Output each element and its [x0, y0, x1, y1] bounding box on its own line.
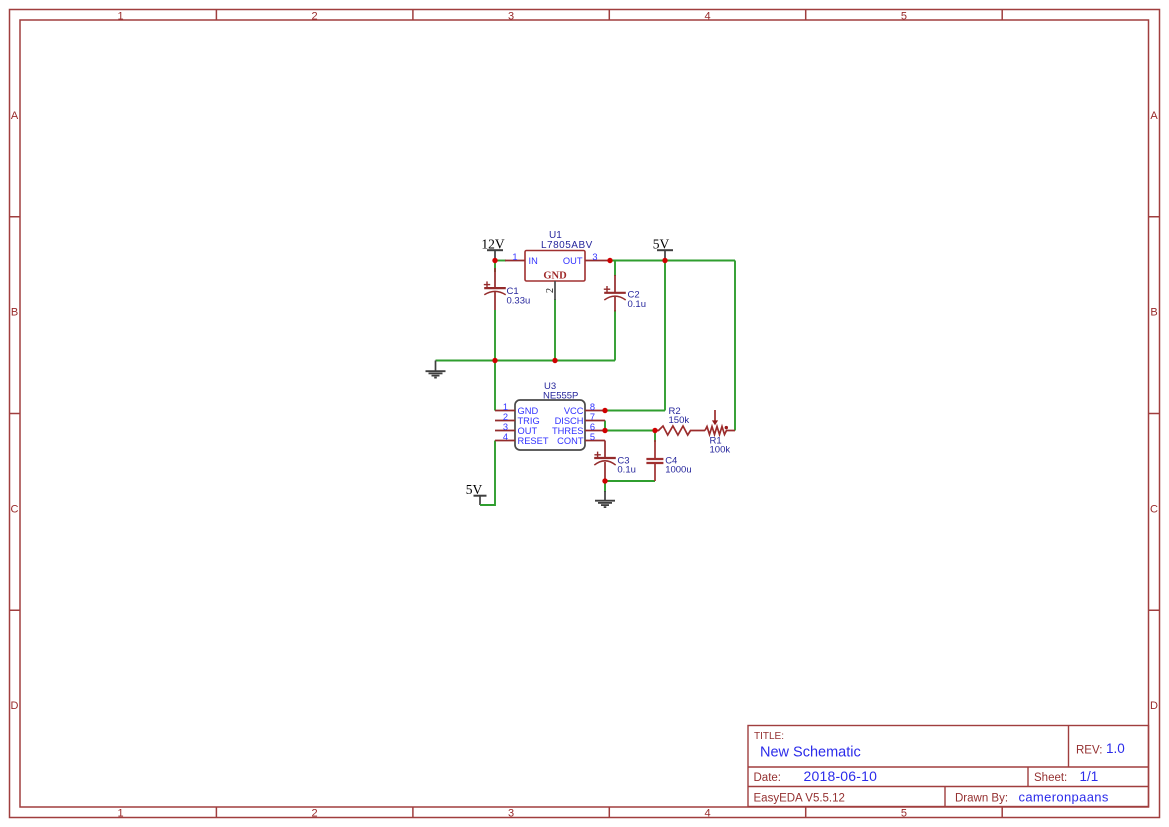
potentiometer R1 [705, 410, 735, 456]
regulator U1 [505, 230, 609, 300]
svg-text:1000u: 1000u [665, 465, 691, 476]
svg-text:1: 1 [117, 807, 123, 819]
junction 5V flag node [662, 258, 667, 263]
ic U3 NE555P [495, 381, 605, 450]
svg-text:Sheet:: Sheet: [1034, 772, 1067, 784]
wire RESET to 5V flag [481, 441, 495, 506]
svg-text:D: D [1150, 700, 1158, 712]
svg-text:0.1u: 0.1u [628, 299, 647, 310]
ground bottom [595, 491, 615, 507]
junction C3/C4 ground node [602, 478, 607, 483]
svg-text:4: 4 [704, 807, 710, 819]
wire VCC horizontal [605, 410, 665, 412]
svg-text:VCC: VCC [564, 406, 584, 416]
svg-text:DISCH: DISCH [555, 416, 584, 426]
junction VCC pin8 [602, 408, 607, 413]
svg-text:L7805ABV: L7805ABV [541, 240, 593, 251]
svg-text:THRES: THRES [552, 426, 584, 436]
junction THRES pin6 [602, 428, 607, 433]
svg-text:REV:: REV: [1076, 745, 1102, 757]
svg-text:A: A [1150, 110, 1158, 122]
svg-text:Date:: Date: [754, 772, 782, 784]
U3 pin 8 VCC [585, 410, 605, 412]
U1 pin 3 OUT [585, 260, 609, 262]
power flag 12V [481, 237, 505, 261]
svg-text:Drawn By:: Drawn By: [955, 793, 1008, 805]
svg-text:150k: 150k [669, 415, 690, 426]
svg-text:3: 3 [508, 10, 514, 22]
wire C1 top [494, 261, 496, 273]
wire C3 to ground [604, 481, 606, 492]
power flag 5V bottom [466, 482, 487, 505]
svg-text:OUT: OUT [563, 256, 583, 266]
wire OUT net top [609, 260, 735, 262]
svg-text:1.0: 1.0 [1106, 741, 1125, 756]
U1 pin 1 IN [505, 260, 525, 262]
svg-text:GND: GND [518, 406, 539, 416]
wire 12V to U1 pin1 [495, 260, 506, 262]
ground left [426, 361, 446, 378]
wire right rail down to R1 [734, 261, 736, 431]
svg-text:2: 2 [503, 412, 508, 422]
svg-text:TITLE:: TITLE: [754, 731, 784, 742]
capacitor C2 [604, 275, 646, 312]
svg-text:C: C [11, 503, 19, 515]
U3 pin 2 TRIG [495, 420, 515, 422]
wire C4 bottom to C3 [605, 480, 655, 482]
svg-text:New Schematic: New Schematic [760, 745, 861, 761]
svg-text:IN: IN [529, 256, 538, 266]
junction OUT/pin3 [607, 258, 612, 263]
svg-text:2: 2 [545, 288, 556, 293]
U3 pin 3 OUT [495, 430, 515, 432]
wire C4 top stub [654, 431, 656, 443]
capacitor C4 [646, 440, 691, 481]
wire U1 pin2 to bus [554, 299, 556, 361]
svg-text:7: 7 [590, 412, 595, 422]
wire C2 top [614, 261, 616, 277]
svg-text:3: 3 [503, 422, 508, 432]
svg-text:4: 4 [704, 10, 710, 22]
svg-text:2018-06-10: 2018-06-10 [804, 768, 878, 784]
wire bus to U3 pin1 [494, 361, 496, 411]
svg-text:6: 6 [590, 422, 595, 432]
wire C2 bottom [614, 310, 616, 361]
svg-text:5: 5 [590, 432, 595, 442]
resistor R2 [655, 406, 705, 435]
U3 pin 6 THRES [585, 430, 605, 432]
wire GND bus [436, 360, 616, 362]
svg-text:NE555P: NE555P [543, 391, 578, 402]
svg-text:5: 5 [901, 807, 907, 819]
svg-text:100k: 100k [710, 445, 731, 456]
svg-text:B: B [1150, 307, 1157, 319]
svg-text:0.33u: 0.33u [507, 296, 531, 307]
U3 pin 4 RESET [495, 440, 515, 442]
wire DISCH to THRES [604, 421, 606, 431]
svg-text:TRIG: TRIG [518, 416, 540, 426]
junction C1/GND bus [492, 358, 497, 363]
wire C1 bottom [494, 310, 496, 361]
svg-text:0.1u: 0.1u [617, 465, 636, 476]
U3 pin 5 CONT [585, 440, 605, 442]
svg-text:RESET: RESET [518, 436, 549, 446]
svg-text:GND: GND [543, 271, 567, 282]
svg-text:A: A [11, 110, 19, 122]
svg-text:8: 8 [590, 402, 595, 412]
svg-text:CONT: CONT [557, 436, 584, 446]
junction R2/C4 node [652, 428, 657, 433]
svg-text:C: C [1150, 503, 1158, 515]
capacitor C3 [594, 441, 636, 480]
wire THRES to R2 [605, 430, 655, 432]
svg-text:1: 1 [503, 402, 508, 412]
power flag 5V top [653, 237, 673, 261]
junction U1 pin2/GND bus [552, 358, 557, 363]
svg-text:1: 1 [117, 10, 123, 22]
svg-text:3: 3 [508, 807, 514, 819]
svg-text:5: 5 [901, 10, 907, 22]
U1 pin 2 [554, 281, 556, 300]
U3 pin 7 DISCH [585, 420, 605, 422]
svg-text:3: 3 [592, 252, 597, 262]
svg-text:2: 2 [312, 807, 318, 819]
junction 12V/C1/pin1 [492, 258, 497, 263]
U3 pin 1 GND [495, 410, 515, 412]
capacitor C1 [484, 268, 530, 310]
svg-text:1/1: 1/1 [1080, 769, 1099, 784]
svg-text:OUT: OUT [518, 426, 538, 436]
svg-text:1: 1 [512, 252, 517, 262]
title block [748, 726, 1149, 807]
svg-text:B: B [11, 307, 18, 319]
svg-text:D: D [11, 700, 19, 712]
svg-text:cameronpaans: cameronpaans [1019, 790, 1109, 805]
svg-text:EasyEDA V5.5.12: EasyEDA V5.5.12 [754, 793, 845, 805]
svg-text:4: 4 [503, 432, 508, 442]
svg-text:2: 2 [312, 10, 318, 22]
wire 5V rail down to VCC [664, 261, 666, 411]
